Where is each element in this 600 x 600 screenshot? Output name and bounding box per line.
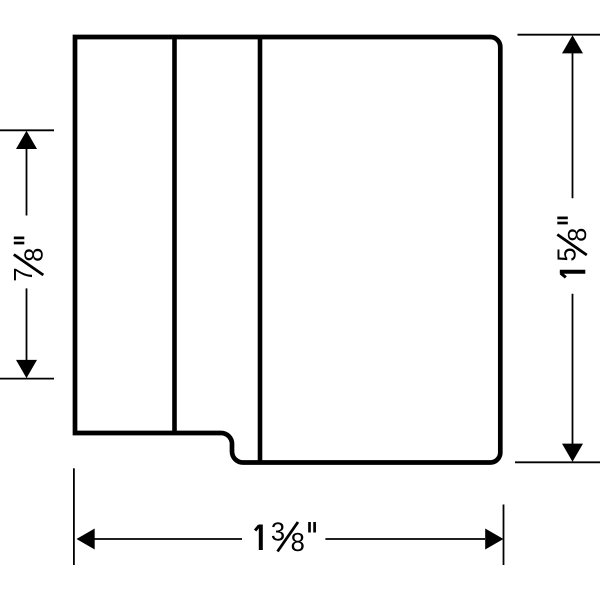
internal edge line 2: [258, 35, 263, 463]
svg-text:8: 8: [291, 529, 305, 557]
right dimension arrowhead up: [562, 35, 583, 53]
bottom dimension text 1 3/8": [255, 518, 315, 556]
bottom dimension extension line left: [73, 468, 75, 565]
right dimension arrowhead down: [562, 444, 583, 462]
right dimension extension line top: [518, 34, 600, 36]
right dimension line lower segment: [572, 294, 574, 445]
left dimension line upper segment: [26, 148, 28, 216]
svg-text:8: 8: [564, 228, 592, 242]
left dimension extension line top: [0, 129, 54, 131]
left dimension extension line bottom: [0, 378, 54, 380]
left dimension arrowhead up: [16, 131, 37, 149]
internal edge line 1: [172, 35, 177, 433]
bottom dimension arrowhead left: [77, 529, 95, 550]
bottom dimension line right segment: [325, 538, 485, 540]
left dimension line lower segment: [26, 288, 28, 361]
right dimension text 1 5/8" (rotated): [554, 218, 592, 278]
part outline: [75, 37, 500, 463]
bottom dimension arrowhead right: [485, 529, 503, 550]
right dimension extension line bottom: [515, 461, 600, 463]
bottom dimension extension line right: [503, 505, 505, 566]
left dimension arrowhead down: [16, 360, 37, 378]
left dimension text 7/8" (rotated): [10, 238, 48, 282]
bottom dimension line left segment: [94, 538, 242, 540]
svg-text:8: 8: [21, 248, 49, 262]
right dimension line upper segment: [572, 52, 574, 198]
